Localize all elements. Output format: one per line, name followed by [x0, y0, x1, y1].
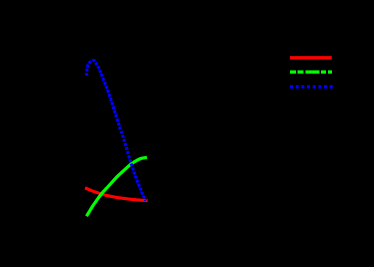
legend line red (solid): [290, 56, 332, 59]
legend line green (dashed): [290, 70, 332, 73]
curve green (dashed, gaps too small to resolve): [87, 157, 147, 216]
curve red (solid): [85, 188, 148, 201]
legend line blue (dotted): [290, 85, 333, 88]
curve blue (dotted): [87, 60, 146, 200]
